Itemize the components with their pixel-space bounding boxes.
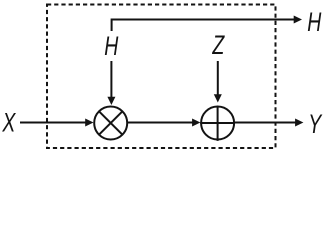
svg-text:Y: Y xyxy=(308,109,323,139)
wire: multiplier to adder xyxy=(127,119,200,127)
label H (output, top right) xyxy=(307,7,322,37)
label Y (output) xyxy=(308,109,323,139)
wire: adder to output Y xyxy=(234,119,303,127)
wire: H branch up and right to output xyxy=(112,16,302,32)
wire: Z down into adder xyxy=(214,61,222,103)
dashed system boundary box xyxy=(47,5,276,149)
multiplier node U1 (circle with X cross) xyxy=(94,107,127,140)
label Z (input above adder) xyxy=(212,30,226,60)
svg-text:H: H xyxy=(104,31,119,61)
wire: X input into multiplier xyxy=(20,119,94,127)
adder node U2 (circle with plus cross) xyxy=(200,106,235,141)
svg-text:X: X xyxy=(2,107,17,137)
label H (input above multiplier) xyxy=(104,31,119,61)
svg-text:H: H xyxy=(307,7,322,37)
wire: H down into multiplier xyxy=(107,61,115,105)
svg-text:Z: Z xyxy=(212,30,226,60)
label X (input) xyxy=(2,107,17,137)
